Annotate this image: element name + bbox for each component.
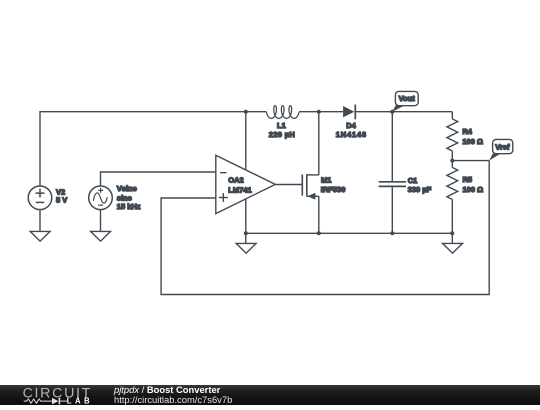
svg-text:Vref: Vref xyxy=(495,143,510,152)
svg-text:L1: L1 xyxy=(277,121,286,130)
wire Vsine to ground xyxy=(100,210,102,232)
junction divider node xyxy=(450,159,454,163)
svg-text:OA2: OA2 xyxy=(228,176,243,185)
ground V2 xyxy=(30,231,50,241)
wire divider node to Vref corner xyxy=(452,160,489,162)
label D4 1N4148 xyxy=(336,121,367,139)
ground Vsine xyxy=(91,231,111,241)
resistor R4 xyxy=(447,112,458,161)
svg-text:330 µF: 330 µF xyxy=(408,185,432,194)
label C1 330 µF xyxy=(408,176,432,194)
wire bottom rail xyxy=(246,232,452,234)
wire non-inverting input feedback loop xyxy=(161,161,489,295)
junction source node xyxy=(317,231,321,235)
voltage source Vsine xyxy=(89,186,113,210)
svg-text:100 Ω: 100 Ω xyxy=(462,137,483,146)
svg-text:R4: R4 xyxy=(462,127,472,136)
inductor L1 xyxy=(246,106,319,119)
ground op-amp xyxy=(236,233,256,253)
wire diode to Vout node xyxy=(355,111,392,113)
svg-text:220 µH: 220 µH xyxy=(269,130,295,139)
svg-text:LAB: LAB xyxy=(67,396,93,405)
footer url xyxy=(114,394,232,405)
wire V2 top to op-amp supply node xyxy=(40,112,246,186)
svg-text:LM741: LM741 xyxy=(228,185,251,194)
wire op-amp output to gate xyxy=(275,184,302,186)
svg-text:Vsine: Vsine xyxy=(117,184,137,193)
label V2 5 V xyxy=(56,187,67,204)
junction drain node xyxy=(317,110,321,114)
CircuitLab logo xyxy=(0,385,100,406)
net label Vout xyxy=(392,91,418,111)
svg-text:1N4148: 1N4148 xyxy=(336,130,367,139)
label L1 220 µH xyxy=(269,121,295,139)
svg-text:IRF530: IRF530 xyxy=(321,185,346,194)
wire source to bottom rail xyxy=(318,196,320,233)
op-amp OA2 xyxy=(216,155,275,213)
wire drain to rail xyxy=(318,112,320,175)
svg-text:15 kHz: 15 kHz xyxy=(117,202,141,211)
diode D4 xyxy=(343,105,355,120)
label Vsine sine 15 kHz xyxy=(117,184,141,211)
svg-text:D4: D4 xyxy=(346,121,356,130)
svg-text:Vout: Vout xyxy=(399,94,416,103)
footer title xyxy=(114,384,220,395)
label M1 IRF530 xyxy=(321,176,346,194)
junction C1 bottom node xyxy=(390,231,394,235)
label OA2 LM741 xyxy=(228,176,251,195)
transistor M1 xyxy=(302,174,319,199)
junction op-amp ground node xyxy=(244,231,248,235)
svg-text:M1: M1 xyxy=(321,176,331,185)
wire Vout node to R4 xyxy=(392,111,452,113)
net label Vref xyxy=(489,139,513,160)
junction op-amp supply node xyxy=(244,110,248,114)
svg-text:R5: R5 xyxy=(463,175,473,184)
wire inverting input from Vsine xyxy=(101,172,216,186)
svg-text:100 Ω: 100 Ω xyxy=(463,185,484,194)
svg-text:5 V: 5 V xyxy=(56,195,67,204)
wire V2 to ground xyxy=(39,210,41,232)
label R5 100 Ω xyxy=(463,175,484,194)
wire drain node to diode xyxy=(319,111,343,113)
junction Vout node xyxy=(390,110,394,114)
ground right xyxy=(443,233,463,253)
footer bar xyxy=(0,385,540,406)
capacitor C1 xyxy=(379,112,406,234)
svg-text:C1: C1 xyxy=(408,176,418,185)
wire op-amp supply through xyxy=(245,112,247,234)
voltage source V2 xyxy=(28,186,52,210)
junction R5 ground node xyxy=(450,231,454,235)
resistor R5 xyxy=(447,161,458,234)
label R4 100 Ω xyxy=(462,127,483,146)
